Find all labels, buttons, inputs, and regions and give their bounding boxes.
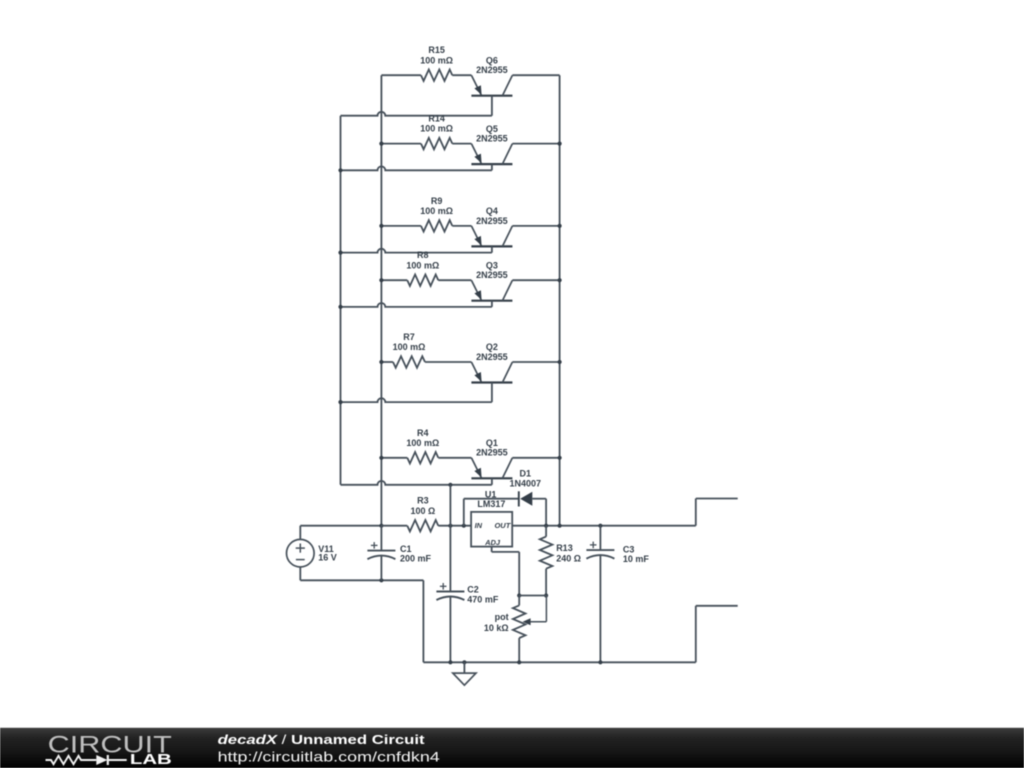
node IN junctions	[448, 524, 466, 528]
transistor Q4 2N2955 (PNP)	[471, 206, 512, 253]
svg-text:Q3: Q3	[486, 260, 498, 270]
svg-text:OUT: OUT	[494, 521, 511, 530]
svg-text:100 Ω: 100 Ω	[411, 506, 436, 516]
diode D1 1N4007	[464, 468, 546, 525]
resistor R9 100 mΩ (ballast of Q4)	[379, 196, 471, 232]
wire Q2 base to base bus (hop over V+ bus)	[338, 398, 492, 404]
svg-text:C1: C1	[400, 544, 412, 554]
voltage source V11 16 V	[287, 526, 337, 581]
CircuitLab logo resistor-diode mark	[46, 755, 127, 765]
wire Q4 collector to output bus	[512, 224, 561, 228]
svg-text:2N2955: 2N2955	[476, 270, 508, 280]
svg-text:Q4: Q4	[486, 206, 498, 216]
svg-text:LM317: LM317	[477, 499, 505, 509]
svg-text:1N4007: 1N4007	[510, 479, 542, 489]
wire ADJ to divider	[492, 547, 522, 598]
resistor R8 100 mΩ (ballast of Q3)	[379, 250, 471, 286]
svg-text:LAB: LAB	[130, 752, 172, 768]
wire Q1 collector to output bus	[512, 456, 561, 460]
svg-text:pot: pot	[495, 612, 509, 622]
svg-text:10 kΩ: 10 kΩ	[484, 623, 509, 633]
svg-text:100 mΩ: 100 mΩ	[393, 342, 426, 352]
svg-text:200 mF: 200 mF	[400, 553, 432, 563]
svg-text:Q1: Q1	[486, 438, 498, 448]
svg-text:D1: D1	[520, 468, 532, 478]
wire V11 plus to V+ node	[300, 524, 383, 528]
resistor R15 100 mΩ (ballast of Q6)	[381, 45, 471, 81]
svg-text:16 V: 16 V	[318, 552, 337, 562]
CircuitLab logo text LAB	[130, 752, 172, 768]
svg-text:R13: R13	[556, 543, 573, 553]
svg-text:http://circuitlab.com/cnfdkn4: http://circuitlab.com/cnfdkn4	[218, 749, 440, 765]
wire V+ input bus (vertical, emitter bus)	[380, 75, 382, 526]
footer bar	[0, 728, 1024, 768]
wire Q6 base to base bus (hop over V+ bus)	[341, 112, 492, 116]
svg-text:R3: R3	[417, 496, 429, 506]
resistor R7 100 mΩ (ballast of Q2)	[379, 332, 471, 368]
capacitor C3 10 mF	[586, 526, 649, 663]
svg-text:R7: R7	[403, 332, 415, 342]
svg-text:R4: R4	[417, 428, 429, 438]
wire ground rail	[423, 660, 695, 664]
svg-text:Q5: Q5	[486, 124, 498, 134]
svg-text:100 mΩ: 100 mΩ	[420, 124, 453, 134]
transistor Q2 2N2955 (PNP)	[471, 342, 512, 402]
capacitor C2 470 mF	[436, 526, 498, 663]
svg-text:2N2955: 2N2955	[476, 65, 508, 75]
ground	[453, 662, 476, 685]
wire Q5 base to base bus (hop over V+ bus)	[338, 166, 492, 172]
transistor Q1 2N2955 (PNP)	[471, 438, 512, 485]
svg-text:100 mΩ: 100 mΩ	[420, 55, 453, 65]
resistor R3 100 Ω	[381, 496, 471, 532]
svg-text:100 mΩ: 100 mΩ	[406, 260, 439, 270]
svg-text:2N2955: 2N2955	[476, 448, 508, 458]
svg-text:IN: IN	[475, 521, 483, 530]
footer title decadX / Unnamed Circuit	[218, 732, 426, 747]
wire V11 minus rail	[300, 578, 423, 662]
potentiometer pot 10 kΩ	[484, 596, 547, 663]
svg-text:100 mΩ: 100 mΩ	[406, 438, 439, 448]
footer url text line	[218, 749, 440, 765]
svg-text:C3: C3	[623, 544, 635, 554]
wire Q3 base to base bus (hop over V+ bus)	[338, 303, 492, 309]
CircuitLab logo text CIRCUIT	[48, 732, 172, 759]
svg-text:100 mΩ: 100 mΩ	[420, 206, 453, 216]
resistor R14 100 mΩ (ballast of Q5)	[379, 114, 471, 150]
svg-text:decadX / Unnamed Circuit: decadX / Unnamed Circuit	[218, 732, 426, 747]
transistor Q3 2N2955 (PNP)	[471, 260, 512, 307]
wire collector/output bus (right vertical)	[559, 75, 561, 526]
op-amp U1 LM317 regulator	[471, 489, 512, 547]
capacitor C1 200 mF	[367, 526, 431, 581]
resistor R4 100 mΩ (ballast of Q1)	[379, 428, 471, 464]
svg-text:Q6: Q6	[486, 55, 498, 65]
wire Q4 base to base bus (hop over V+ bus)	[338, 249, 492, 255]
wire Q3 collector to output bus	[512, 278, 561, 282]
svg-text:2N2955: 2N2955	[476, 134, 508, 144]
svg-text:240 Ω: 240 Ω	[556, 554, 581, 564]
svg-text:Q2: Q2	[486, 342, 498, 352]
svg-text:R9: R9	[431, 196, 443, 206]
wire Q5 collector to output bus	[512, 142, 561, 146]
wire IN node to Q1 base bus riser	[449, 485, 451, 526]
wire OUT node	[512, 524, 696, 528]
svg-text:10 mF: 10 mF	[623, 554, 650, 564]
transistor Q6 2N2955 (PNP)	[471, 55, 512, 115]
wire Q6 collector to output bus	[512, 74, 559, 76]
svg-text:2N2955: 2N2955	[476, 216, 508, 226]
wire Q2 collector to output bus	[512, 360, 561, 364]
svg-text:C2: C2	[467, 585, 479, 595]
resistor R13 240 Ω	[540, 526, 581, 598]
svg-text:R15: R15	[428, 45, 445, 55]
svg-text:R8: R8	[417, 250, 429, 260]
svg-text:470 mF: 470 mF	[467, 595, 499, 605]
wire output terminal negative	[696, 606, 738, 663]
svg-text:ADJ: ADJ	[484, 538, 501, 547]
wire base bus (far-left vertical)	[340, 116, 342, 485]
wire ADJ node to R13 bottom	[519, 595, 546, 597]
svg-text:2N2955: 2N2955	[476, 352, 508, 362]
transistor Q5 2N2955 (PNP)	[471, 124, 512, 171]
wire output terminal positive	[696, 499, 738, 526]
svg-text:R14: R14	[428, 114, 445, 124]
wire Q1 base to base bus (hop over V+ bus)	[341, 481, 492, 487]
